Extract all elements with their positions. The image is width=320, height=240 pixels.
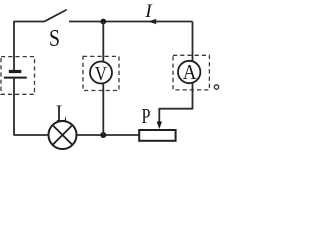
node junction bottom (voltmeter tap)	[100, 132, 106, 138]
battery dashed box	[1, 57, 35, 95]
node junction top (voltmeter tap)	[100, 19, 106, 25]
voltmeter V1 circle	[90, 62, 112, 84]
svg-text:S: S	[49, 25, 60, 52]
lamp X cross	[53, 125, 73, 145]
voltmeter dashed box	[83, 56, 119, 90]
ammeter A1 circle	[178, 61, 200, 83]
wire lamp left to bottom-left corner	[14, 79, 49, 135]
battery long thin plate	[4, 77, 27, 79]
voltmeter branch wire top	[102, 22, 104, 62]
ammeter dashed box	[173, 55, 209, 90]
switch S blade	[45, 10, 67, 21]
wire right vertical into ammeter	[192, 22, 194, 62]
wire top-left horizontal to switch	[14, 22, 44, 71]
lamp L circle	[49, 121, 77, 149]
wire ammeter bottom to jog	[159, 83, 192, 123]
wire rheostat left to lamp	[77, 134, 140, 136]
current arrow on top wire	[148, 19, 156, 24]
battery short thick plate	[9, 70, 21, 73]
svg-text:I: I	[144, 1, 153, 22]
svg-text:P: P	[142, 104, 151, 128]
wire switch to top-right corner	[69, 21, 193, 23]
svg-text:V: V	[95, 63, 107, 85]
voltmeter branch wire bottom	[102, 83, 104, 135]
svg-text:A: A	[183, 60, 197, 84]
wiper arrowhead onto rheostat	[157, 122, 162, 130]
terminal dot (small circle at right)	[214, 85, 218, 89]
rheostat P body	[139, 130, 175, 141]
